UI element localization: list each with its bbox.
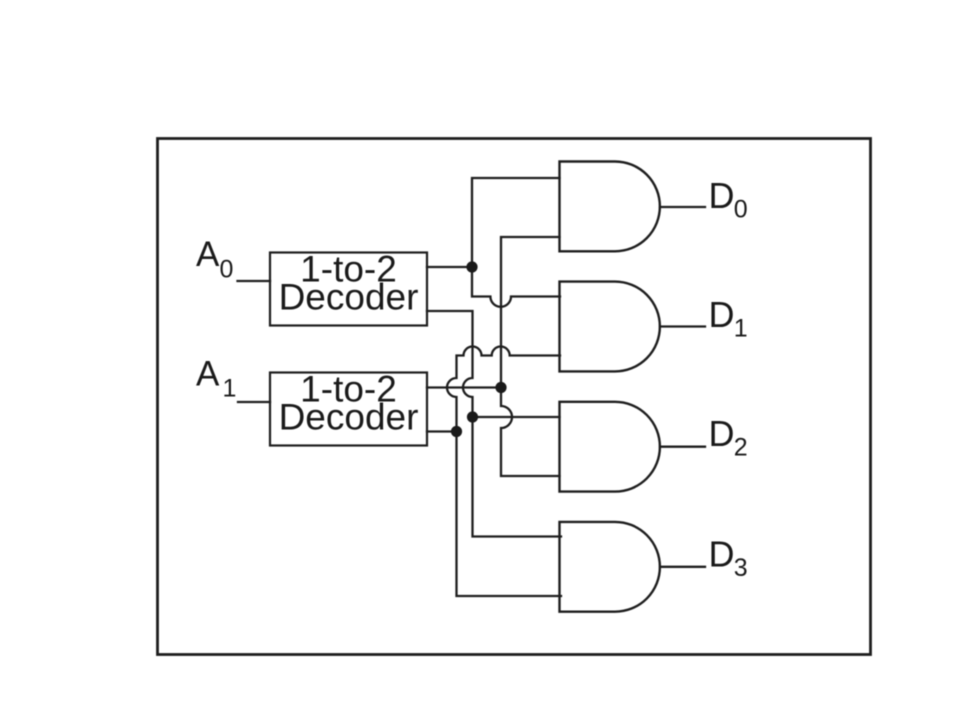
svg-text:1: 1 <box>734 315 748 343</box>
svg-text:2: 2 <box>734 433 748 461</box>
svg-text:3: 3 <box>734 554 748 582</box>
svg-text:D: D <box>709 413 735 454</box>
svg-text:Decoder: Decoder <box>279 277 419 318</box>
svg-text:A: A <box>196 355 220 394</box>
svg-text:0: 0 <box>220 256 234 284</box>
svg-text:D: D <box>709 294 735 335</box>
svg-text:Decoder: Decoder <box>279 397 419 438</box>
svg-text:0: 0 <box>734 195 748 223</box>
svg-text:1: 1 <box>223 375 237 403</box>
svg-text:D: D <box>709 175 735 216</box>
svg-text:A: A <box>196 235 220 274</box>
svg-text:D: D <box>709 534 735 575</box>
